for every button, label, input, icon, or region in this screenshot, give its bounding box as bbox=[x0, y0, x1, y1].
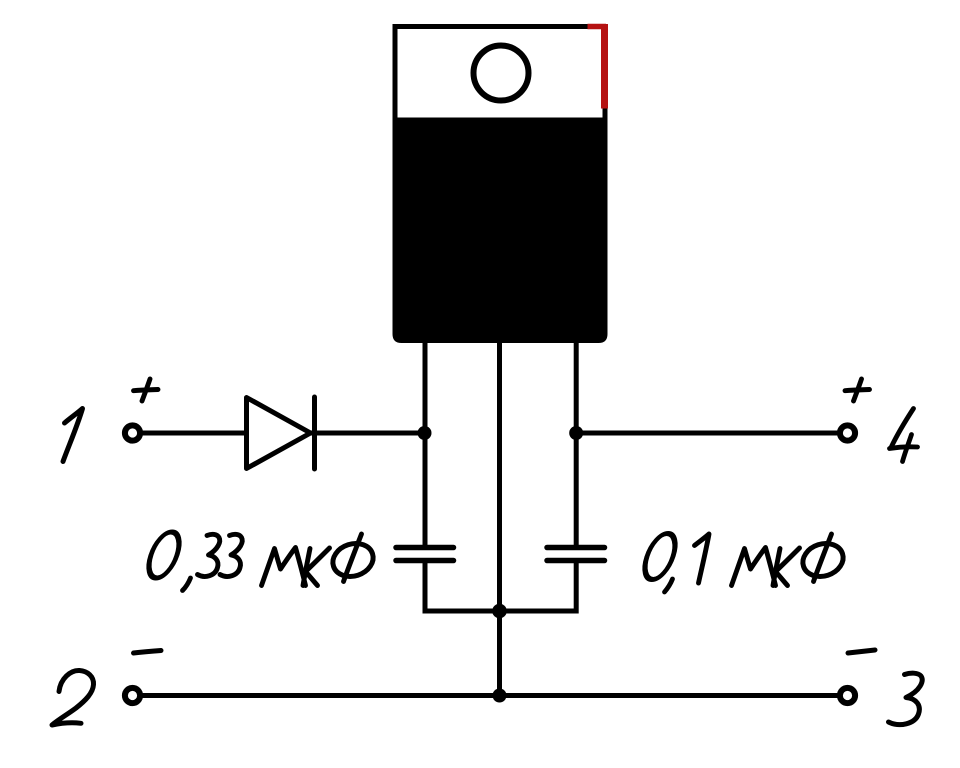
plus sign terminal 1 bbox=[134, 379, 159, 401]
minus sign terminal 2 bbox=[134, 651, 162, 654]
capacitor C1 bbox=[396, 548, 454, 561]
junction output node bbox=[569, 426, 583, 440]
value label C1: 0,33 мкФ bbox=[144, 532, 378, 591]
diode VD1 bbox=[247, 397, 315, 469]
regulator U1 TO-220 tab bbox=[395, 27, 605, 121]
U1 pin 3 output leg bbox=[574, 341, 579, 545]
plus sign terminal 4 bbox=[845, 379, 870, 401]
wire output node to terminal 4 bbox=[576, 431, 839, 436]
wire terminal 1 to diode and input node bbox=[141, 431, 424, 436]
terminal 4 bbox=[840, 425, 855, 440]
regulator U1 heatsink red stripe bbox=[588, 24, 607, 109]
U1 pin 2 ground leg bbox=[497, 341, 502, 696]
junction input node bbox=[418, 426, 432, 440]
wire capacitor bottoms bus bbox=[425, 558, 576, 611]
label pin 2 bbox=[52, 670, 94, 725]
wire bottom rail terminal 2 to terminal 3 bbox=[141, 693, 839, 698]
junction ground leg to bottom rail bbox=[493, 689, 507, 703]
value label C2: 0,1 мкФ bbox=[640, 534, 848, 593]
terminal 3 bbox=[840, 688, 855, 703]
capacitor C2 bbox=[547, 548, 605, 561]
label pin 1 bbox=[63, 409, 83, 462]
junction capacitor bus to ground leg bbox=[492, 604, 507, 619]
U1 pin 1 input leg bbox=[423, 341, 428, 545]
regulator U1 body bbox=[393, 118, 608, 343]
regulator U1 mounting hole bbox=[474, 46, 529, 101]
minus sign terminal 3 bbox=[848, 650, 875, 653]
terminal 2 bbox=[125, 688, 140, 703]
label pin 3 bbox=[889, 673, 923, 724]
label pin 4 bbox=[890, 409, 918, 462]
terminal 1 bbox=[125, 425, 140, 440]
